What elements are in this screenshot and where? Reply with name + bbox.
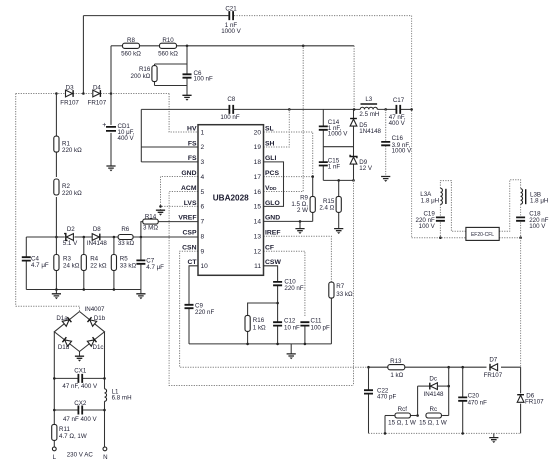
svg-text:L: L (53, 454, 57, 460)
capacitor C12 (273, 322, 282, 325)
node rail Rcf junction (384, 432, 387, 435)
svg-text:4.7 Ω, 1W: 4.7 Ω, 1W (59, 433, 87, 440)
svg-text:D8: D8 (93, 226, 101, 233)
inductor L3B (521, 189, 523, 205)
wire R16 bottom lead (247, 331, 249, 344)
bridge diode D1b (87, 317, 96, 326)
wire PCS pin line (264, 176, 313, 178)
wire C12 bottom lead (277, 326, 279, 344)
wire top line from D3-D4 node to C21 (83, 15, 228, 17)
wire startup line drop to OUT node (353, 46, 355, 110)
svg-text:VDD: VDD (265, 185, 277, 192)
svg-text:R16: R16 (253, 317, 265, 324)
svg-text:230 V AC: 230 V AC (67, 452, 94, 459)
capacitor C20 (458, 397, 467, 400)
resistor R11 (52, 424, 57, 440)
svg-text:D1d: D1d (58, 344, 70, 351)
svg-text:7: 7 (201, 219, 205, 226)
node C22 top junction (367, 366, 370, 369)
svg-text:1 kΩ: 1 kΩ (390, 372, 403, 379)
wire SH pin riser (264, 109, 290, 147)
svg-text:33 kΩ: 33 kΩ (336, 291, 353, 298)
capacitor CX1 (78, 374, 82, 383)
capacitor C21 (229, 11, 233, 20)
svg-text:C11: C11 (311, 317, 322, 324)
wire C11 bottom lead (304, 326, 306, 344)
svg-text:10: 10 (201, 263, 209, 270)
svg-text:3: 3 (201, 159, 205, 166)
ground under C16 (381, 177, 390, 179)
node ACM net junction at 12V node (352, 179, 355, 182)
wire CX2 link (54, 409, 78, 411)
svg-text:GLI: GLI (265, 155, 276, 162)
wire bridge ground stub (79, 352, 81, 357)
ground under GND pin 14 (295, 229, 304, 231)
terminal L (52, 447, 56, 451)
wire Rcf left drop (384, 416, 386, 434)
svg-text:IREF: IREF (265, 229, 280, 236)
wire C20 leads (462, 367, 464, 397)
svg-text:Rc: Rc (430, 406, 438, 413)
node rail CD1 junction (110, 92, 113, 95)
diode D8 (92, 234, 99, 241)
capacitor CD1 (106, 127, 116, 131)
svg-text:1 kΩ: 1 kΩ (253, 324, 266, 331)
capacitor C16 (381, 142, 390, 145)
diode Dc (430, 383, 437, 390)
ground at GND/LVS pins (156, 210, 165, 212)
wire rail ground stub (290, 344, 292, 354)
capacitor C18 (516, 217, 525, 220)
svg-text:1N4148: 1N4148 (359, 128, 381, 135)
svg-text:GLO: GLO (265, 200, 280, 207)
wire Rc right lead (442, 415, 449, 417)
wire ground stub bottom right (493, 433, 495, 437)
node sense rail R5 (113, 288, 116, 291)
svg-text:6: 6 (201, 204, 205, 211)
node row R5 junction (113, 236, 116, 239)
svg-text:100 nF: 100 nF (220, 114, 239, 121)
svg-text:N: N (103, 454, 107, 460)
wire L3B to C18 (520, 204, 522, 216)
bridge diode D1c (87, 337, 96, 346)
svg-text:D3: D3 (66, 85, 74, 92)
capacitor C17 (396, 105, 400, 114)
svg-text:R10: R10 (162, 37, 174, 44)
svg-text:17: 17 (254, 174, 262, 181)
inductor L1 (105, 389, 107, 402)
wire top line C21 to lamp-return riser (234, 15, 412, 17)
capacitor C7 (136, 260, 145, 263)
node startup line C6 junction (186, 45, 189, 48)
capacitor C6 (183, 74, 192, 77)
svg-text:R6: R6 (121, 226, 129, 233)
wire lamp right top bracket (499, 180, 520, 232)
capacitor C8 (229, 105, 233, 114)
wire lamp bottom line (412, 237, 466, 239)
resistor R15 (336, 196, 341, 212)
resistor R6 (118, 235, 133, 240)
svg-text:15: 15 (254, 204, 262, 211)
svg-text:VREF: VREF (178, 215, 196, 222)
svg-text:470 pF: 470 pF (377, 394, 396, 401)
node rail C12 junction (276, 343, 279, 346)
diode D7 (491, 364, 498, 371)
zener diode D9 (350, 157, 357, 164)
svg-text:CX2: CX2 (74, 400, 87, 407)
wire CD1 leads (110, 94, 112, 125)
svg-text:2: 2 (201, 144, 205, 151)
bridge diode D1d (62, 337, 71, 346)
node lamp bottom right junction (519, 236, 522, 239)
wire rail to bridge top (16, 306, 80, 311)
svg-text:220 kΩ: 220 kΩ (62, 147, 82, 154)
wire C22 leads (368, 367, 370, 389)
ground under C6 (182, 95, 191, 97)
wire R15 leads (338, 180, 340, 196)
bridge diode D1a (62, 317, 71, 326)
svg-text:D7: D7 (489, 357, 497, 364)
svg-text:FS: FS (188, 155, 197, 162)
resistor Rcf (395, 413, 411, 418)
svg-text:SH: SH (265, 140, 275, 147)
wire ACM net (169, 192, 353, 386)
svg-text:LVS: LVS (184, 200, 197, 207)
svg-text:ACM: ACM (181, 185, 197, 192)
wire lamp-return riser (411, 16, 413, 238)
wire VREF pin to R14 (158, 221, 198, 223)
wire D6 leads (520, 367, 522, 393)
svg-text:12 V: 12 V (359, 165, 373, 172)
node CX2 right (103, 409, 106, 412)
node R15 top junction (337, 179, 340, 182)
svg-text:5: 5 (201, 189, 205, 196)
svg-text:FR107: FR107 (88, 100, 107, 107)
wire R4 leads (83, 237, 85, 255)
svg-text:HV: HV (187, 125, 197, 132)
svg-text:470 nF: 470 nF (468, 399, 487, 406)
wire output node line (FS/C8 side) (141, 108, 229, 110)
capacitor C15 (319, 162, 328, 165)
node Rcf/Rc junction (416, 414, 419, 417)
wire R8 R10 startup line (111, 45, 122, 47)
node R13/D7/C-net junction (447, 366, 450, 369)
ground under bridge (75, 356, 84, 358)
node OUT at C17/lamp riser (410, 108, 413, 111)
svg-text:1000 V: 1000 V (392, 148, 412, 155)
svg-text:16: 16 (254, 189, 262, 196)
resistor R3 (54, 255, 59, 271)
node CX1 right (103, 377, 106, 380)
wire IREF pin line (264, 236, 332, 282)
resistor Rc (426, 413, 442, 418)
wire R13 line (369, 366, 388, 368)
wire R16a stubs (154, 64, 156, 66)
wire C4 leads (25, 237, 27, 257)
wire R7 bottom lead (330, 298, 332, 344)
wire C16 riser (385, 109, 387, 141)
wire mains right line (104, 332, 106, 389)
resistor R9 (310, 196, 315, 212)
svg-text:33 kΩ: 33 kΩ (120, 262, 137, 269)
wire C19 bottom lead (439, 222, 441, 237)
wire CF pin line (264, 251, 305, 317)
wire R16 top lead (248, 303, 278, 316)
wire C10 to C12 (277, 286, 279, 322)
svg-text:1 nF: 1 nF (328, 164, 341, 171)
svg-text:CX1: CX1 (74, 367, 87, 374)
svg-text:D2: D2 (67, 226, 75, 233)
ground under CD1 (106, 166, 115, 168)
node CX2 left (53, 409, 56, 412)
wire bottom right ground rail (369, 432, 521, 434)
svg-text:220 nF: 220 nF (284, 285, 303, 292)
svg-text:4.7 μF: 4.7 μF (31, 262, 49, 269)
wire D7 line (449, 366, 487, 368)
wire output node line (L3 to C17) (377, 108, 396, 110)
svg-text:47 nF 400 V: 47 nF 400 V (63, 416, 98, 423)
node lamp bottom C19 junction (439, 236, 442, 239)
wire CX1 link (54, 377, 78, 379)
node startup-drop / D5 junction (353, 108, 356, 111)
svg-text:R13: R13 (390, 358, 402, 365)
diode D6 (517, 395, 524, 402)
wire CSP pin line (133, 236, 198, 238)
svg-text:4.7 μF: 4.7 μF (146, 264, 164, 271)
capacitor C4 (22, 257, 31, 260)
resistor R14 (143, 219, 159, 224)
svg-text:15 Ω, 1 W: 15 Ω, 1 W (388, 420, 416, 427)
wire timing ground rail (189, 343, 331, 345)
wire R9 leads (312, 177, 314, 197)
svg-text:2.4 Ω: 2.4 Ω (319, 205, 334, 212)
capacitor C19 (436, 217, 445, 220)
svg-text:200 kΩ: 200 kΩ (131, 73, 151, 80)
resistor R5 (111, 255, 116, 271)
capacitor C11 (300, 322, 309, 325)
svg-text:CF: CF (265, 244, 274, 251)
svg-text:+: + (102, 122, 106, 129)
ground under timing rail (287, 354, 296, 356)
svg-text:100 V: 100 V (419, 223, 436, 230)
svg-text:11: 11 (254, 263, 261, 270)
wire LVS pin line (161, 205, 199, 207)
ground under R15 (334, 229, 343, 231)
svg-text:24 kΩ: 24 kΩ (63, 262, 80, 269)
node rail R1 junction (55, 92, 58, 95)
wire C6 stubs (186, 64, 188, 74)
wire CSW drop (264, 266, 278, 282)
svg-text:4: 4 (201, 174, 205, 181)
wire D5 D9 chain (353, 109, 355, 118)
wire sense ground rail (26, 289, 141, 291)
resistor R8 (123, 43, 140, 48)
node GND line ground stub (299, 220, 302, 223)
svg-text:1.8 μH: 1.8 μH (421, 197, 439, 204)
node row R4 junction (83, 236, 86, 239)
svg-text:560 kΩ: 560 kΩ (158, 50, 178, 57)
svg-text:400 V: 400 V (389, 120, 406, 127)
svg-text:1: 1 (201, 129, 205, 136)
wire Dc line (418, 385, 430, 387)
wire sense row (26, 236, 65, 238)
node CSP row R14/C7 junction (140, 236, 143, 239)
svg-text:100 nF: 100 nF (194, 76, 213, 83)
wire mains left line (53, 332, 55, 425)
wire GND pin 14 line (264, 220, 313, 222)
svg-text:IN4148: IN4148 (424, 391, 445, 398)
resistor R13 (388, 365, 405, 370)
svg-text:FR107: FR107 (60, 100, 79, 107)
wire C21 riser from D3-D4 junction (82, 16, 84, 94)
wire C15-bottom to D9 link (323, 179, 353, 181)
node startup line VDD riser junction (302, 45, 305, 48)
node R16 tap junction (276, 302, 279, 305)
wire rectified mains rail (16, 93, 169, 95)
svg-text:R7: R7 (336, 283, 344, 290)
ground under sense rail right (136, 294, 145, 296)
svg-text:R14: R14 (145, 213, 157, 220)
resistor R7 (329, 282, 334, 298)
svg-text:D1c: D1c (92, 344, 103, 351)
svg-text:C12: C12 (284, 317, 296, 324)
wire C18 bottom lead (520, 222, 522, 237)
resistor R4 (81, 255, 86, 271)
svg-text:220 nF: 220 nF (195, 309, 214, 316)
wire CD1 riser (110, 46, 112, 94)
wire filament network bracket (448, 367, 450, 415)
node row R2/R3 junction (55, 236, 58, 239)
svg-text:C8: C8 (227, 96, 235, 103)
svg-text:560 kΩ: 560 kΩ (121, 50, 141, 57)
node CX1 left (53, 377, 56, 380)
svg-text:22 kΩ: 22 kΩ (90, 262, 107, 269)
wire lamp right drop to D7/D6 (520, 238, 522, 368)
wire R14 left lead (141, 222, 143, 237)
terminal N (103, 447, 107, 451)
wire GND pin 4 line (161, 177, 199, 211)
node C16 junction (384, 108, 387, 111)
svg-text:FS: FS (188, 140, 197, 147)
capacitor C22 (364, 390, 373, 393)
node sense rail R4 (83, 288, 86, 291)
svg-text:19: 19 (254, 144, 262, 151)
wire C6/R16 bracket (186, 46, 188, 64)
wire output node line (C8 to L3) (233, 108, 360, 110)
wire CT pin to C9 (189, 266, 198, 304)
svg-text:3 MΩ: 3 MΩ (143, 224, 158, 231)
svg-text:IN4007: IN4007 (85, 306, 106, 313)
resistor R16 timing (245, 315, 250, 331)
svg-text:C21: C21 (225, 6, 237, 13)
svg-text:Dc: Dc (429, 375, 437, 382)
wire sense rail ground stub left (55, 290, 57, 294)
wire C14 C15 chain (322, 109, 324, 126)
wire C9 bottom lead (188, 309, 190, 344)
svg-text:14: 14 (254, 219, 262, 226)
svg-text:UBA2028: UBA2028 (213, 194, 249, 203)
svg-text:2 W: 2 W (297, 207, 308, 214)
wire R3 leads (55, 237, 57, 255)
wire HV corner riser (169, 94, 198, 133)
svg-text:20: 20 (254, 129, 262, 136)
svg-text:L3: L3 (365, 96, 372, 103)
wire L3A to C19 (439, 204, 441, 215)
lamp EF20-CFL (466, 227, 499, 240)
wire Rcf leads (385, 415, 394, 417)
svg-text:R16: R16 (139, 66, 151, 73)
svg-text:5.1 V: 5.1 V (63, 240, 78, 247)
node rail R16 junction (246, 343, 249, 346)
wire C14-bottom to D5-anode link (323, 146, 353, 148)
svg-text:CSW: CSW (265, 259, 281, 266)
svg-text:15 Ω, 1 W: 15 Ω, 1 W (419, 420, 447, 427)
diode D4 (93, 90, 100, 97)
resistor R10 (160, 43, 177, 48)
inductor L3A (440, 188, 442, 204)
svg-text:2.5 mH: 2.5 mH (359, 111, 379, 118)
node Dc right junction (447, 385, 450, 388)
svg-text:SL: SL (265, 125, 274, 132)
wire bridge diamond (54, 312, 104, 352)
svg-text:EF20-CFL: EF20-CFL (471, 232, 494, 238)
resistor R1 (54, 136, 59, 152)
diode D5 (350, 119, 357, 126)
resistor R2 (54, 179, 59, 195)
svg-text:R8: R8 (127, 37, 135, 44)
inductor L3 (360, 107, 377, 109)
node PCS / R9 junction (311, 175, 314, 178)
svg-text:CT: CT (187, 259, 197, 266)
wire sense rail ground stub right (140, 290, 142, 294)
wire R1 R2 chain (55, 94, 57, 137)
svg-text:R11: R11 (59, 426, 70, 433)
wire SL pin to shunt (264, 132, 313, 177)
wire R5 leads (113, 237, 115, 255)
svg-text:12: 12 (254, 248, 262, 255)
ground bottom right (489, 438, 498, 440)
op-amp U1 UBA2028 body (198, 125, 264, 276)
wire VDD riser from startup line (264, 46, 304, 192)
wire C7 leads (140, 237, 142, 260)
svg-text:220 kΩ: 220 kΩ (62, 190, 82, 197)
svg-text:Rcf: Rcf (398, 406, 408, 413)
wire ground stub under GND pin (299, 221, 301, 228)
node sense rail R3 (55, 288, 58, 291)
svg-text:1000 V: 1000 V (221, 28, 241, 35)
svg-text:D1a: D1a (56, 315, 68, 322)
wire Dc left drop (417, 386, 419, 415)
svg-text:6.8 mH: 6.8 mH (112, 395, 132, 402)
capacitor CX2 (78, 406, 82, 415)
svg-text:GND: GND (181, 170, 196, 177)
wire rail left riser (15, 94, 17, 307)
svg-text:1.8 μH: 1.8 μH (530, 198, 548, 205)
svg-text:CSN: CSN (182, 244, 196, 251)
svg-text:C17: C17 (393, 97, 405, 104)
capacitor C9 (185, 305, 194, 308)
svg-text:PCS: PCS (265, 170, 279, 177)
wire R11 to L terminal (53, 440, 55, 447)
svg-text:18: 18 (254, 159, 262, 166)
node rail C11 junction (304, 343, 307, 346)
svg-text:FR107: FR107 (484, 372, 503, 379)
svg-text:47 nF, 400 V: 47 nF, 400 V (62, 383, 98, 390)
svg-text:9: 9 (201, 248, 205, 255)
resistor R16 (152, 66, 157, 82)
svg-text:33 kΩ: 33 kΩ (118, 240, 135, 247)
svg-text:13: 13 (254, 233, 262, 240)
